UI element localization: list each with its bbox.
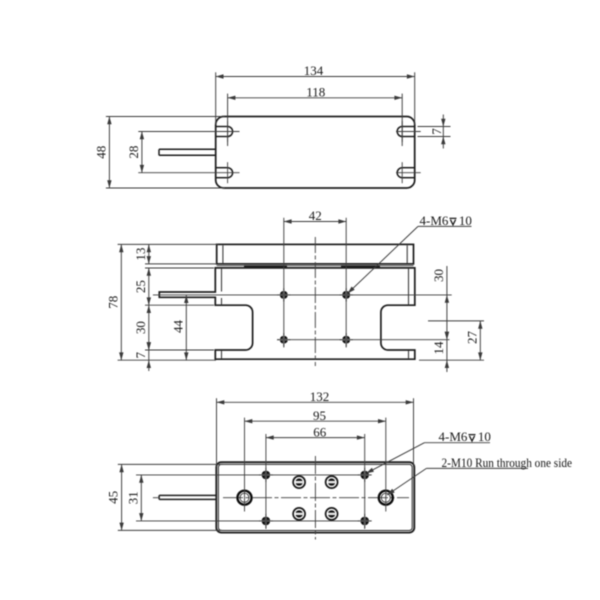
- view3 screw head bottom-left: [293, 508, 305, 520]
- svg-text:118: 118: [306, 85, 325, 100]
- dim 30 right: [431, 266, 449, 340]
- dim 134 extension lines: [216, 72, 415, 124]
- view2 tapped hole M6 upper-right: [340, 288, 353, 301]
- svg-text:25: 25: [133, 280, 148, 293]
- view3 horizontal centerline: [153, 497, 409, 499]
- svg-text:44: 44: [170, 320, 185, 334]
- view3 tapped hole M6 top-right: [358, 468, 372, 482]
- view1 slot bottom-left: [216, 162, 233, 183]
- view2 top plate inner edge left: [222, 245, 224, 263]
- svg-text:13: 13: [133, 248, 148, 261]
- svg-text:48: 48: [93, 146, 108, 159]
- dim 66: [266, 424, 365, 440]
- dim 78 extension lines: [118, 244, 218, 360]
- dim 25: [133, 268, 151, 305]
- view1 slot top-right: [397, 121, 415, 142]
- view2 tapped hole M6 lower-right: [340, 333, 353, 346]
- view2 body inner edge right: [408, 269, 410, 359]
- dim 13 extension line: [145, 263, 217, 265]
- view3 M10 centerline right: [385, 418, 387, 512]
- svg-text:30: 30: [133, 321, 148, 334]
- view1 slot horizontal centerline top-right: [396, 131, 421, 133]
- dim 30 extension line: [145, 349, 214, 351]
- view2 body outline: [159, 268, 414, 359]
- dim 30 left: [133, 305, 151, 350]
- dim 48: [93, 117, 111, 189]
- view2 horizontal centerline lower holes: [277, 339, 450, 341]
- dim 78: [105, 244, 123, 360]
- svg-text:28: 28: [126, 146, 141, 159]
- dim 7 left: [133, 342, 151, 371]
- view3 tapped hole M6 bottom-left: [259, 514, 273, 528]
- dim 45: [106, 464, 124, 530]
- view3 vertical centerline: [314, 456, 316, 540]
- dim 134: [216, 63, 415, 79]
- svg-text:78: 78: [105, 296, 120, 309]
- view2 tapped hole M6 upper-left: [277, 288, 290, 301]
- view3 M10 hole right: [379, 491, 393, 505]
- dim 132 extension lines: [217, 398, 414, 467]
- view3 M6 column centerline left: [265, 434, 267, 529]
- svg-text:14: 14: [431, 341, 446, 355]
- dim 118: [228, 85, 403, 101]
- svg-text:4-M6: 4-M6: [420, 213, 449, 228]
- dim 14: [431, 332, 449, 372]
- view3 shaft rod: [159, 495, 217, 499]
- dim 27 extension lines: [419, 321, 484, 360]
- dim 13: [133, 244, 151, 264]
- view3 M6 row centerline top: [136, 474, 371, 476]
- svg-text:2-M10 Run through one side: 2-M10 Run through one side: [442, 455, 573, 470]
- view2 top plate outline: [217, 244, 414, 264]
- view3 tapped hole M6 bottom-right: [358, 514, 372, 528]
- svg-text:132: 132: [310, 389, 330, 404]
- svg-text:66: 66: [313, 424, 327, 439]
- view3 screw head bottom-right: [326, 508, 338, 520]
- svg-text:27: 27: [464, 331, 479, 345]
- dim 95: [245, 408, 386, 424]
- view1 slot horizontal centerline bottom-right: [396, 172, 421, 174]
- view2 vertical centerline: [314, 237, 316, 366]
- svg-text:7: 7: [429, 128, 444, 135]
- dim 118 extension lines: [228, 94, 403, 146]
- svg-text:45: 45: [106, 491, 121, 504]
- label 4-M6 depth 10 (view3): [366, 429, 491, 473]
- view3 M10 hole left: [238, 491, 252, 505]
- svg-text:95: 95: [313, 408, 326, 423]
- svg-text:31: 31: [125, 491, 140, 504]
- view3 M6 column centerline right: [364, 434, 366, 529]
- dim 48 extension lines: [106, 117, 225, 189]
- view2 pole shim right: [341, 265, 380, 268]
- view3 screw head top-left: [293, 476, 305, 488]
- view1 body plate outline: [216, 117, 415, 189]
- dim 45 extension lines: [118, 464, 223, 530]
- dim 31: [125, 475, 143, 521]
- view3 screw head top-right: [326, 476, 338, 488]
- label 2-M10 run through: [387, 455, 572, 495]
- dim 42: [284, 208, 346, 224]
- view3 tapped hole M6 top-left: [259, 468, 273, 482]
- svg-text:30: 30: [431, 269, 446, 282]
- view2 hole column centerline left: [283, 218, 285, 348]
- view2 gasket line: [217, 265, 414, 267]
- dim 44: [170, 295, 188, 360]
- view1 shaft rod: [159, 149, 216, 155]
- dim 132: [217, 389, 414, 405]
- view3 M6 row centerline bottom: [136, 520, 371, 522]
- view1 slot horizontal centerline top: [138, 131, 239, 133]
- dim 27: [464, 321, 482, 360]
- view2 horizontal centerline rod/upper holes: [153, 294, 452, 296]
- view2 top plate inner edge right: [406, 245, 408, 263]
- svg-text:10: 10: [459, 213, 472, 228]
- view1 slot bottom-right: [397, 162, 415, 183]
- view3 M10 centerline left: [244, 418, 246, 512]
- view1 slot horizontal centerline bottom: [138, 172, 239, 174]
- svg-text:42: 42: [309, 208, 322, 223]
- dim 7 extension lines: [418, 127, 451, 137]
- svg-text:134: 134: [304, 63, 324, 78]
- view3 inner face outline: [218, 464, 412, 530]
- view3 outer housing outline: [216, 462, 414, 532]
- label 4-M6 depth 10 (view2): [348, 213, 472, 294]
- view2 hole column centerline right: [345, 218, 347, 348]
- dim 7: [429, 115, 446, 149]
- view2 tapped hole M6 lower-left: [277, 333, 290, 346]
- dim 25 extension lines: [145, 268, 214, 305]
- svg-text:7: 7: [133, 351, 148, 358]
- view2 pole shim left: [244, 265, 287, 268]
- svg-text:10: 10: [478, 429, 491, 444]
- view1 slot top-left: [216, 121, 233, 142]
- dim 28: [126, 132, 144, 173]
- view2 body inner edge left: [221, 269, 223, 359]
- svg-text:4-M6: 4-M6: [439, 429, 468, 444]
